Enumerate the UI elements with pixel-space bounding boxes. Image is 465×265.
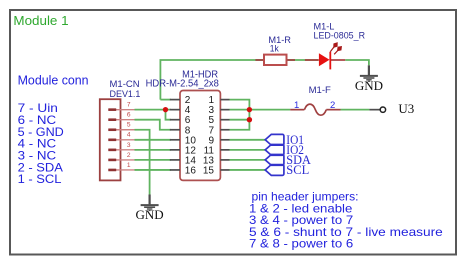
- svg-text:GND: GND: [355, 78, 383, 93]
- svg-text:1: 1: [127, 162, 131, 169]
- svg-text:M1-F: M1-F: [309, 85, 331, 96]
- header pin stubs: [170, 100, 230, 170]
- svg-text:7: 7: [127, 102, 131, 109]
- ground bottom (conn pin5): [136, 195, 164, 223]
- net flag IO1: [265, 134, 284, 145]
- svg-text:GND: GND: [136, 207, 164, 222]
- wire header pin3 to fuse: [230, 109, 291, 111]
- fuse wave: [304, 104, 326, 115]
- wire conn pin5 to bottom GND: [135, 130, 150, 195]
- wire header pin5 to tie: [230, 119, 250, 121]
- wire resistor to LED: [287, 59, 319, 61]
- fuse pin stubs: [290, 109, 340, 111]
- resistor body: [264, 55, 287, 65]
- wire conn pin3 to header pin12: [135, 149, 171, 151]
- wire header pin11 to IO2 flag: [230, 149, 266, 151]
- junction dot header pin3 tie: [247, 107, 252, 112]
- wire conn pin7 to header pin4: [135, 109, 171, 111]
- wire header pin9 to IO1 flag: [230, 139, 266, 141]
- wire header pin15 to SCL flag: [230, 169, 266, 171]
- connector M1-CN: [100, 79, 141, 180]
- svg-text:Module 1: Module 1: [13, 13, 68, 28]
- U3 pin circle: [369, 101, 414, 116]
- header M1-HDR: [146, 70, 230, 181]
- connector pin numbers: [127, 102, 131, 169]
- svg-text:2: 2: [127, 152, 131, 159]
- svg-text:6: 6: [127, 112, 131, 119]
- svg-text:15: 15: [203, 165, 215, 176]
- svg-text:Module conn: Module conn: [18, 73, 89, 88]
- svg-text:SCL: SCL: [286, 162, 309, 177]
- wire conn pin1 to header pin16: [135, 169, 171, 171]
- resistor pin stubs: [255, 59, 295, 61]
- wire top rail from header pin2 drop to resistor, LED, and to GND corner: [135, 60, 370, 195]
- ground top right: [355, 65, 383, 93]
- led pin stubs: [305, 59, 345, 61]
- resistor M1-R: [255, 35, 295, 65]
- svg-text:HDR-M-2.54_2x8: HDR-M-2.54_2x8: [146, 78, 220, 89]
- svg-text:1: 1: [294, 100, 299, 111]
- annotation text: Module conn pin list: [18, 73, 89, 187]
- junction dot at conn pin7 / header pin4-pin6: [163, 107, 168, 112]
- wire conn pin2 to header pin14: [135, 159, 171, 161]
- svg-text:2: 2: [330, 100, 335, 111]
- fuse M1-F: [290, 85, 340, 115]
- wire conn pin4 to header pin10: [135, 139, 171, 141]
- led triangle: [319, 53, 330, 66]
- led cathode bar: [329, 52, 331, 70]
- svg-text:1 - SCL: 1 - SCL: [18, 172, 62, 186]
- svg-text:3: 3: [127, 142, 131, 149]
- wire junction drop to header pin6: [166, 110, 171, 120]
- led light arrows: [330, 43, 341, 54]
- connector pin bullets: [108, 110, 116, 170]
- wire conn pin6 jog to header pin8: [135, 120, 171, 130]
- svg-text:LED-0805_R: LED-0805_R: [314, 31, 366, 42]
- wire header pin1/3/5/7 tie: [230, 100, 250, 130]
- wire header pin13 to SDA flag: [230, 159, 266, 161]
- svg-text:DEV1.1: DEV1.1: [110, 89, 141, 100]
- svg-text:7 & 8 - power to 6: 7 & 8 - power to 6: [249, 237, 354, 251]
- net flag SCL: [265, 165, 284, 176]
- svg-text:1k: 1k: [270, 44, 279, 55]
- LED M1-L: [305, 22, 365, 70]
- svg-text:U3: U3: [398, 101, 414, 116]
- junction dot header pin5 tie: [247, 117, 252, 122]
- connector box: [100, 99, 121, 180]
- svg-text:5: 5: [127, 122, 131, 129]
- header pin numbers: [185, 95, 215, 176]
- annotation text: pin header jumpers: [249, 190, 443, 251]
- net flag SDA: [265, 155, 284, 166]
- wire header pin2 stub link: [160, 99, 170, 101]
- header box: [180, 91, 220, 181]
- svg-text:16: 16: [185, 165, 197, 176]
- wire fuse to U3 pin: [341, 109, 370, 111]
- svg-text:4: 4: [127, 132, 131, 139]
- wire LED to gnd corner: [345, 60, 369, 65]
- connector pin lines (pink): [108, 110, 134, 170]
- wire rail top: [160, 60, 263, 100]
- net flag IO2: [265, 144, 284, 155]
